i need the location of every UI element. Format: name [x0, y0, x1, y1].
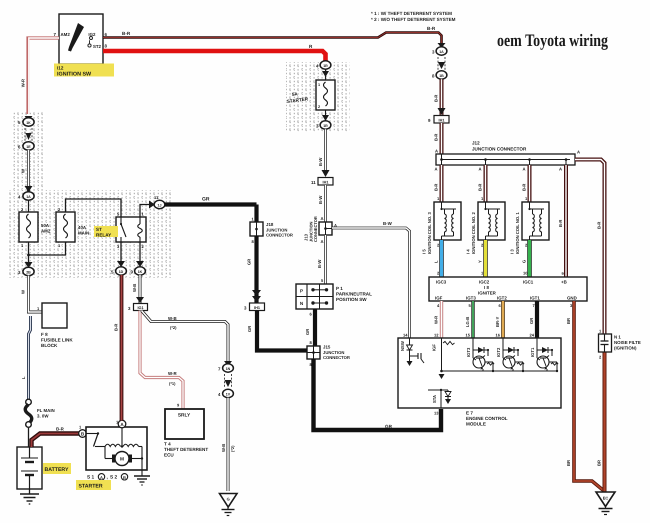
svg-text:1K: 1K [26, 121, 31, 125]
svg-text:(*2): (*2) [230, 445, 235, 452]
svg-text:E 7: E 7 [466, 411, 473, 416]
svg-text:W-B: W-B [132, 284, 137, 292]
svg-text:B-W: B-W [318, 158, 323, 166]
wire W-B down to ground [221, 398, 235, 491]
svg-text:POSITION SW: POSITION SW [336, 297, 367, 302]
svg-text:B-R: B-R [427, 26, 436, 31]
wire 40A MAIN top to relay pin5 [66, 199, 122, 217]
svg-text:B: B [123, 475, 126, 480]
svg-text:1: 1 [318, 83, 320, 87]
wire W-R igniter IGF to ECM [434, 301, 442, 338]
svg-text:12: 12 [434, 333, 439, 338]
S1 S2 terminals text [87, 474, 128, 481]
svg-text:M: M [120, 457, 124, 463]
svg-text:14: 14 [403, 333, 408, 338]
wire BR noise filter down to ground [597, 352, 605, 492]
wire B-W IH1 to J13 [318, 185, 326, 222]
svg-text:(IGNITION): (IGNITION) [614, 346, 637, 351]
wire GR J18 to IH1 left [247, 236, 262, 303]
svg-text:P: P [300, 289, 303, 294]
svg-text:IGNITION SW: IGNITION SW [57, 72, 92, 78]
ECM box E7 [398, 333, 561, 427]
wire BR-Y igniter IGT2 to ECM [495, 301, 503, 338]
svg-text:IGC3: IGC3 [436, 280, 447, 285]
svg-text:S 1: S 1 [87, 475, 95, 481]
fusible link FL MAIN [25, 399, 54, 447]
wire L from F8 to FL MAIN [21, 316, 31, 400]
wire GR thick relay to J18 [165, 197, 257, 205]
svg-text:I 8: I 8 [484, 285, 489, 290]
svg-text:BR-Y: BR-Y [495, 317, 500, 327]
ECM IGT1 transistor [530, 338, 558, 372]
svg-text:B-R: B-R [597, 222, 602, 229]
igniter I8 [429, 277, 587, 301]
svg-text:IG1: IG1 [137, 306, 143, 310]
svg-text:1J: 1J [158, 204, 162, 208]
connector 1E [18, 142, 34, 150]
svg-text:B-W: B-W [383, 221, 393, 226]
svg-text:2: 2 [318, 105, 320, 109]
svg-text:GR: GR [247, 326, 252, 332]
svg-text:B-R: B-R [122, 31, 131, 36]
svg-text:A: A [100, 475, 103, 480]
wire fuse bottoms join [25, 242, 66, 268]
wire GR igniter IGT1 to ECM [529, 301, 537, 338]
wire Y coil2 to igniter [478, 240, 486, 277]
svg-text:GR: GR [202, 197, 210, 203]
J13 connector rotated label [304, 216, 319, 242]
svg-text:B-R: B-R [114, 324, 119, 331]
wire W-R IG1 to SRLY [140, 311, 183, 410]
svg-text:SRLY: SRLY [178, 413, 191, 419]
svg-text:* 2 : W/O THEFT DETERRENT SYST: * 2 : W/O THEFT DETERRENT SYSTEM [371, 17, 456, 22]
starter ground [134, 476, 150, 485]
starter terminal A [116, 420, 126, 428]
junction connector J18 [250, 205, 293, 245]
relay pin1 wire to connector 1J [140, 195, 165, 217]
fuse 5A STARTER [287, 80, 335, 110]
svg-text:J15: J15 [323, 345, 331, 350]
svg-text:EC: EC [603, 496, 609, 501]
connector 1K [18, 116, 34, 126]
wire B-W fuse to IH1 [318, 129, 330, 177]
svg-text:3. 0W: 3. 0W [37, 414, 49, 419]
svg-text:ST: ST [96, 227, 102, 232]
svg-text:GND: GND [567, 296, 577, 301]
svg-text:B-R: B-R [434, 184, 439, 191]
svg-text:1V: 1V [226, 393, 231, 397]
svg-text:I 5: I 5 [422, 249, 427, 254]
wire GR IH1 to J15 [247, 311, 307, 351]
svg-text:BR: BR [566, 318, 571, 324]
svg-text:BR: BR [597, 460, 602, 466]
wire B-R down to IH1 right [434, 79, 446, 116]
STARTER label highlight [76, 480, 111, 490]
svg-text:IG2: IG2 [88, 32, 96, 37]
noise filter N1 [599, 329, 641, 360]
shaded area starter fuse [286, 62, 350, 132]
svg-text:L: L [434, 260, 439, 263]
connector 1V bottom [218, 389, 233, 397]
svg-text:40A: 40A [78, 225, 87, 230]
svg-text:MODULE: MODULE [466, 422, 486, 427]
svg-text:STA: STA [432, 395, 437, 403]
svg-text:1R: 1R [323, 64, 328, 68]
svg-text:AM2: AM2 [61, 32, 71, 37]
wire B-R J12 right to noise filter column [575, 160, 605, 335]
fuse 40A MAIN [56, 207, 89, 248]
svg-text:(*1): (*1) [169, 381, 176, 386]
wire W down to 50A fuse [21, 150, 33, 192]
svg-text:IGF: IGF [432, 344, 437, 351]
BATTERY label highlight [43, 463, 71, 474]
svg-text:ENGINE CONTROL: ENGINE CONTROL [466, 416, 508, 421]
svg-text:JUNCTION CONNECTOR: JUNCTION CONNECTOR [472, 147, 527, 152]
svg-text:1R: 1R [323, 124, 328, 128]
svg-text:11: 11 [311, 180, 316, 185]
svg-text:NSW: NSW [400, 341, 405, 351]
wire LG-B igniter IGT3 to ECM [465, 301, 473, 338]
ECM IGT3 transistor [466, 338, 494, 372]
svg-text:W-B: W-B [221, 444, 226, 452]
svg-text:A: A [321, 216, 324, 221]
svg-text:B-W: B-W [317, 260, 322, 268]
ground EC right [596, 492, 615, 515]
starter internals [86, 428, 143, 476]
ignition coil no2 I4 [478, 202, 505, 248]
svg-text:GR: GR [247, 259, 252, 265]
dashed link [438, 57, 445, 70]
inline connector IH1 middle [311, 178, 333, 186]
svg-text:W-B: W-B [168, 316, 177, 321]
svg-text:IGC1: IGC1 [523, 280, 534, 285]
svg-text:N 1: N 1 [614, 335, 621, 340]
svg-text:AM2: AM2 [41, 229, 51, 234]
svg-text:BATTERY: BATTERY [45, 467, 69, 473]
inline connector IH1 right [428, 116, 449, 124]
svg-text:IGT2: IGT2 [496, 347, 501, 357]
svg-text:W: W [21, 169, 26, 173]
svg-text:oem Toyota wiring: oem Toyota wiring [497, 30, 608, 50]
wire BR igniter GND down [566, 301, 604, 491]
svg-text:B-R: B-R [434, 95, 439, 102]
dashed link [25, 128, 32, 141]
svg-text:W-R: W-R [21, 79, 26, 87]
svg-text:GR: GR [385, 424, 393, 429]
svg-text:FL MAIN: FL MAIN [37, 408, 55, 413]
wire R ST2 to starter fuse [103, 44, 326, 61]
svg-text:B-W: B-W [318, 196, 323, 204]
notes theft deterrent [371, 11, 456, 22]
wire B-R J12 to coil2 [478, 165, 486, 202]
inline connector IH1 left [244, 303, 265, 311]
shaded area left column [12, 112, 45, 192]
svg-text:IGT3: IGT3 [466, 296, 476, 301]
svg-text:IH1: IH1 [254, 306, 260, 310]
ST RELAY label highlight [94, 226, 118, 238]
fuse 50A AM2 [19, 207, 51, 248]
svg-text:Y: Y [478, 260, 483, 263]
wire G coil1 to igniter [522, 240, 530, 277]
svg-text:IGT3: IGT3 [466, 347, 471, 357]
connector 1R below fuse [316, 110, 331, 129]
svg-text:13: 13 [434, 411, 439, 416]
svg-text:ST2: ST2 [93, 44, 102, 49]
wire B-R IG2 to theft chain [103, 26, 442, 46]
svg-text:IGNITER: IGNITER [478, 291, 497, 296]
svg-text:W: W [21, 290, 26, 294]
wire W-R from AM2 left and down [21, 38, 60, 114]
svg-text:B-R: B-R [522, 184, 527, 191]
svg-text:S 2: S 2 [110, 475, 118, 481]
svg-text:IGF: IGF [435, 296, 443, 301]
svg-text:1D: 1D [119, 270, 124, 274]
svg-text:IGNITION COIL NO. 3: IGNITION COIL NO. 3 [427, 212, 432, 254]
relay pin3 to connector 1D [111, 242, 126, 275]
svg-text:IGNITION COIL NO. 2: IGNITION COIL NO. 2 [471, 212, 476, 254]
svg-text:PARK/NEUTRAL: PARK/NEUTRAL [336, 292, 372, 297]
svg-text:10: 10 [523, 271, 528, 276]
connector 1R above fuse [316, 61, 331, 80]
wire W down to F8 [21, 276, 43, 313]
wire GR P1 to J15 [305, 309, 315, 346]
svg-text:STARTER: STARTER [79, 484, 103, 490]
svg-text:RELAY: RELAY [96, 233, 111, 238]
ECM STA circuit [428, 389, 451, 408]
svg-text:IH1: IH1 [439, 118, 445, 122]
I12 label highlight [54, 64, 114, 78]
ST relay [116, 212, 146, 250]
svg-text:LG-B: LG-B [465, 317, 470, 327]
svg-text:1K: 1K [138, 270, 143, 274]
wire B-R relay to starter A [114, 275, 122, 421]
ignition switch I12 [54, 14, 108, 64]
svg-text:T 4: T 4 [164, 442, 171, 447]
svg-text:1E: 1E [26, 145, 31, 149]
svg-text:B-R: B-R [558, 220, 563, 227]
ECM IGT2 transistor [496, 338, 524, 372]
svg-text:IH1: IH1 [323, 180, 329, 184]
svg-text:1A: 1A [439, 50, 444, 54]
svg-text:J12: J12 [472, 141, 480, 146]
svg-text:FUSIBLE LINK: FUSIBLE LINK [41, 338, 73, 343]
coil2 rotated label [466, 212, 477, 254]
wire B-R J12 to coil3 [434, 165, 442, 202]
svg-text:W-R: W-R [434, 316, 439, 324]
svg-text:(*2): (*2) [170, 325, 177, 330]
svg-text:1B: 1B [439, 74, 444, 78]
wire B-R battery to starter B [32, 427, 80, 448]
svg-text:GR: GR [305, 329, 310, 335]
svg-text:GR: GR [529, 318, 534, 324]
svg-text:B-R: B-R [56, 427, 65, 432]
svg-text:1N: 1N [226, 367, 231, 371]
svg-text:1A: 1A [26, 195, 31, 199]
wire B-R J12 to coil1 [522, 165, 530, 202]
svg-text:A: A [577, 150, 580, 155]
starter box [86, 427, 147, 470]
svg-text:BR: BR [566, 460, 571, 466]
wire L coil3 to igniter [434, 240, 442, 277]
junction connector J12 [435, 141, 581, 172]
connector 2B below fuses [18, 267, 34, 275]
wire B-R IH1 to J12 [434, 123, 442, 154]
connector 1A [18, 192, 34, 212]
wire GR J15 down right to ECM pin13 [314, 359, 442, 430]
wire B-W J13 right to ECM pin14 [332, 221, 410, 338]
wire B-W J13 to P1 [317, 235, 326, 284]
relay pin2 to connector 1K2 [131, 242, 146, 275]
svg-text:B-R: B-R [478, 184, 483, 191]
junction connector J13 [319, 222, 337, 244]
svg-text:IGT1: IGT1 [530, 347, 535, 357]
dashed link [225, 374, 232, 388]
svg-text:A: A [559, 167, 562, 172]
svg-text:L: L [21, 376, 26, 379]
svg-text:* 1 : W/ THEFT DETERRENT SYSTE: * 1 : W/ THEFT DETERRENT SYSTEM [371, 11, 452, 16]
inline connector IG1 [128, 304, 148, 312]
svg-text:MAIN: MAIN [78, 231, 89, 236]
wire B-R J12 to igniter +B [558, 165, 566, 277]
svg-text:15: 15 [466, 333, 471, 338]
battery [17, 447, 42, 489]
svg-text:IGT1: IGT1 [530, 296, 540, 301]
ignition coil no1 I3 [522, 202, 549, 248]
svg-text:NOISE FILTE: NOISE FILTE [614, 340, 641, 345]
svg-text:P 1: P 1 [336, 286, 343, 291]
shaded area fuses and relay [8, 190, 172, 278]
svg-text:2B: 2B [26, 271, 31, 275]
ECM NSW input [400, 338, 424, 366]
park neutral position switch P1 [296, 284, 372, 309]
connector 1N top [218, 361, 233, 372]
coil3 rotated label [422, 212, 433, 254]
ignition coil no3 I5 [434, 202, 461, 248]
svg-text:50A: 50A [41, 223, 50, 228]
wire W-B IG1 to ground chain [142, 311, 229, 363]
starter terminal B [79, 425, 87, 438]
svg-text:A: A [435, 149, 438, 154]
junction connector J15 [307, 345, 350, 368]
fusible link block F8 [41, 303, 73, 348]
battery ground [20, 489, 39, 504]
connector 1B theft chain [432, 71, 447, 79]
svg-text:I 4: I 4 [466, 249, 471, 254]
svg-text:IGT2: IGT2 [497, 296, 507, 301]
svg-text:CONNECTOR: CONNECTOR [266, 233, 293, 238]
svg-text:THEFT DETERRENT: THEFT DETERRENT [164, 447, 208, 452]
svg-text:G: G [522, 260, 527, 263]
svg-text:W-R: W-R [168, 371, 178, 376]
svg-text:A: A [479, 167, 482, 172]
connector 1A theft chain [432, 43, 447, 55]
svg-text:I 3: I 3 [510, 249, 515, 254]
svg-text:IGC2: IGC2 [479, 280, 490, 285]
svg-text:CONNECTOR: CONNECTOR [313, 216, 318, 242]
SRLY theft deterrent ECU T4 [164, 409, 208, 458]
svg-text:24: 24 [530, 333, 535, 338]
ECM IGF circuit [432, 338, 558, 379]
svg-text:G: G [227, 497, 230, 502]
wire W-B relay to IG1 [132, 275, 144, 303]
svg-text:I12: I12 [57, 66, 64, 71]
svg-text:A: A [435, 167, 438, 172]
svg-text:IGNITION COIL NO. 1: IGNITION COIL NO. 1 [515, 212, 520, 254]
svg-text:ECU: ECU [164, 453, 174, 458]
svg-text:A: A [523, 167, 526, 172]
svg-text:F 8: F 8 [41, 332, 48, 337]
ground triangle middle [220, 494, 238, 516]
svg-text:BLOCK: BLOCK [41, 343, 58, 348]
svg-text:+B: +B [561, 280, 567, 285]
svg-text:A: A [321, 239, 324, 244]
svg-text:16: 16 [496, 333, 501, 338]
coil1 rotated label [510, 212, 521, 254]
svg-text:B-R: B-R [434, 134, 439, 141]
svg-text:J18: J18 [266, 222, 274, 227]
svg-text:CONNECTOR: CONNECTOR [323, 355, 350, 360]
